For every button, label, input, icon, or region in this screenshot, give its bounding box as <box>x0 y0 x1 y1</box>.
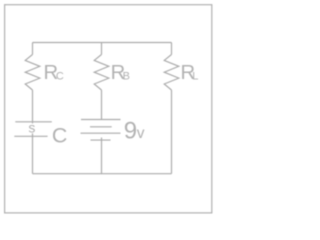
battery plate long lower <box>81 132 121 134</box>
resistor R_L <box>164 55 179 91</box>
battery plate long top <box>81 119 121 121</box>
resistor R_C <box>25 55 40 91</box>
capacitor C top plate <box>15 121 52 123</box>
wire left branch upper <box>32 43 34 55</box>
capacitor C bottom plate <box>14 135 47 137</box>
svg-text:C: C <box>56 71 64 83</box>
wire battery to bottom <box>101 138 103 174</box>
battery plate short bottom <box>91 139 111 141</box>
resistor R_B <box>94 55 109 91</box>
wire bottom horizontal <box>33 173 172 175</box>
wire left branch lower <box>32 90 34 174</box>
wire right branch lower <box>171 90 173 174</box>
wire top horizontal <box>33 42 172 44</box>
svg-text:B: B <box>123 71 130 83</box>
svg-text:C: C <box>52 123 67 147</box>
wire middle branch to battery <box>101 90 103 120</box>
border frame <box>5 5 212 213</box>
svg-text:L: L <box>192 71 198 83</box>
label s white backing <box>28 123 36 133</box>
svg-text:v: v <box>137 125 145 142</box>
battery plate short upper <box>90 126 112 128</box>
wire right branch upper <box>171 43 173 55</box>
wire middle branch upper <box>101 43 103 55</box>
svg-text:9: 9 <box>124 118 137 145</box>
svg-text:s: s <box>28 120 35 136</box>
